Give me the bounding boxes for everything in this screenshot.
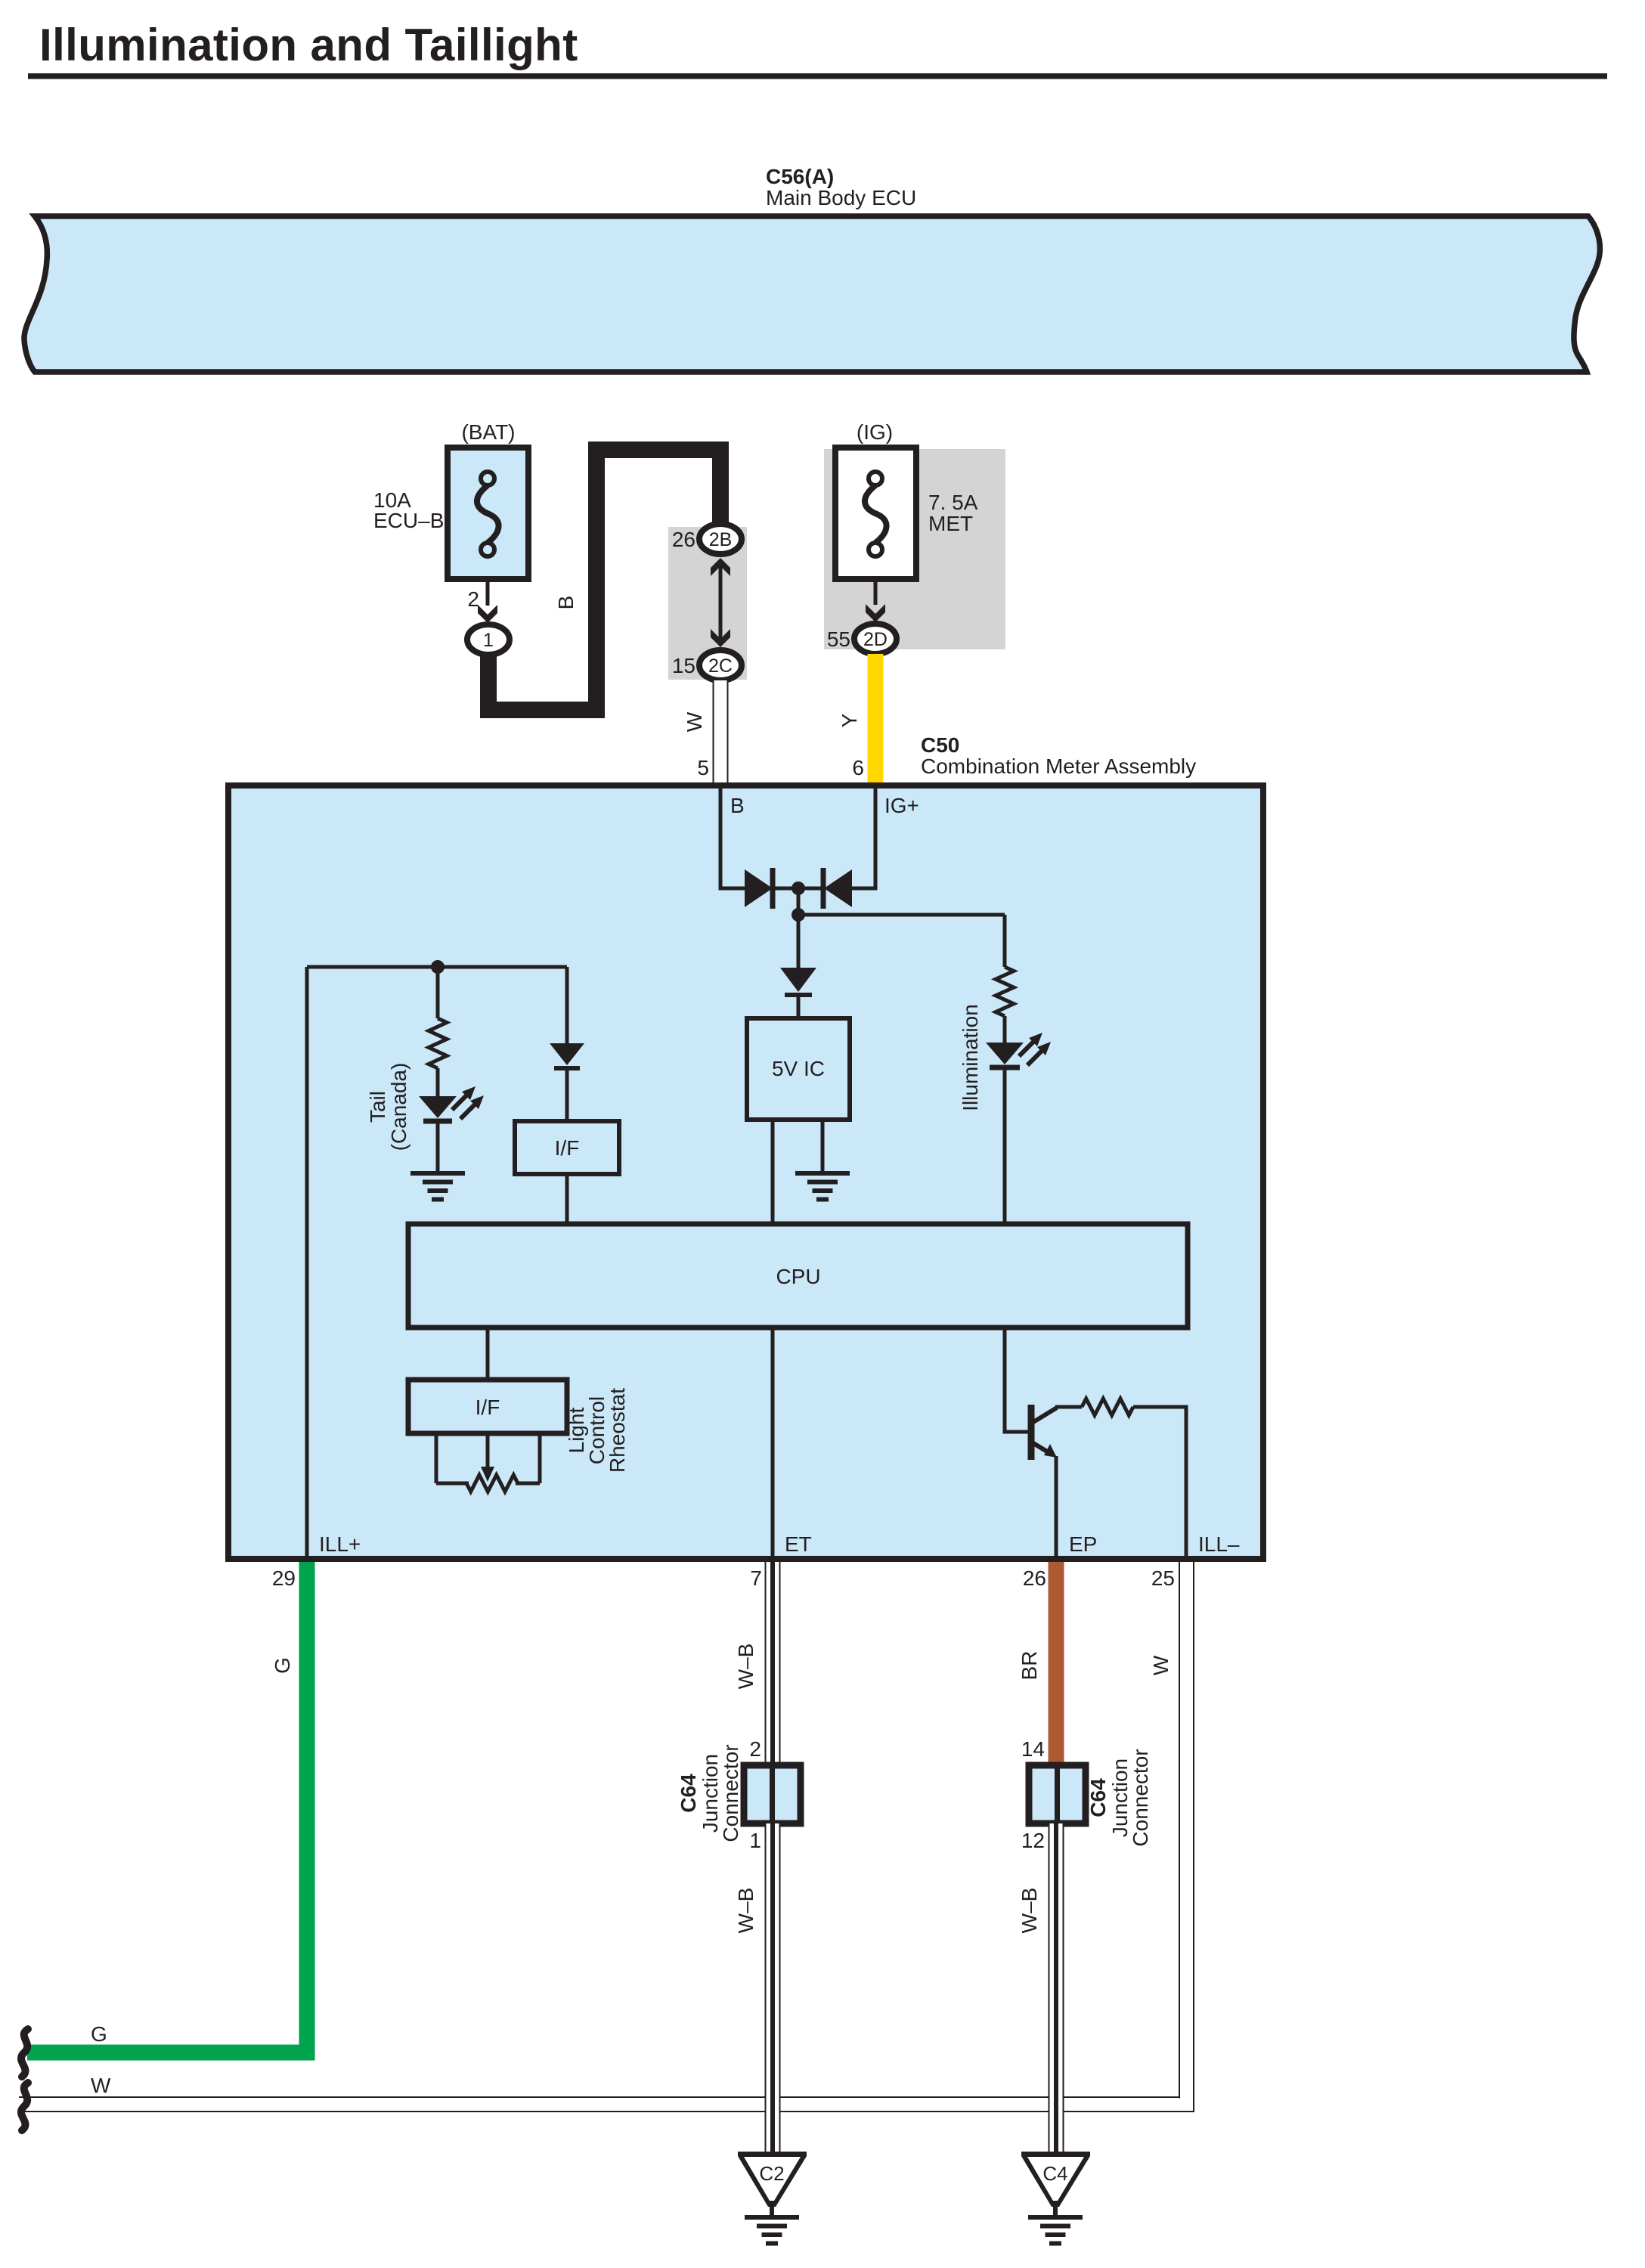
svg-text:1: 1 (749, 1829, 761, 1852)
5V IC box (747, 1018, 850, 1120)
svg-text:C2: C2 (759, 2162, 784, 2185)
svg-text:15: 15 (672, 654, 695, 677)
diode D1 (from B) (745, 869, 773, 907)
wire illumination branch down (1003, 915, 1007, 967)
lead I/F to CPU (565, 1174, 569, 1225)
wire G green ILL+ (27, 1562, 307, 2053)
wire node to lower node (797, 888, 801, 918)
svg-text:W–B: W–B (734, 1888, 757, 1934)
svg-text:MET: MET (928, 512, 973, 535)
transistor Q1 (1028, 1405, 1035, 1460)
svg-text:I/F: I/F (555, 1136, 580, 1160)
svg-text:G: G (91, 2022, 107, 2046)
svg-text:2C: 2C (708, 655, 733, 677)
svg-text:(BAT): (BAT) (461, 420, 515, 444)
wire D1 to node (773, 887, 823, 891)
wire W-B to C4 (1049, 1823, 1064, 2154)
lead 5V IC to CPU (771, 1120, 775, 1225)
svg-text:Combination Meter Assembly: Combination Meter Assembly (921, 754, 1196, 778)
svg-text:29: 29 (272, 1566, 296, 1590)
svg-text:B: B (554, 596, 578, 610)
svg-text:EP: EP (1069, 1532, 1097, 1556)
svg-text:Connector: Connector (1129, 1749, 1152, 1846)
wire B internal (720, 789, 745, 888)
svg-text:Rheostat: Rheostat (606, 1388, 629, 1473)
svg-text:W–B: W–B (1018, 1888, 1041, 1934)
svg-text:2: 2 (467, 587, 479, 611)
fuse 7.5A MET (835, 448, 916, 579)
wire to illumination branch (798, 913, 1005, 917)
gray block behind MET fuse (824, 449, 1005, 649)
LED illumination (986, 1043, 1024, 1064)
wire resistor to ILL- line (1133, 1407, 1186, 1559)
svg-text:ILL+: ILL+ (319, 1532, 361, 1556)
wire LED to ground (436, 1121, 440, 1173)
svg-text:(Canada): (Canada) (387, 1063, 410, 1151)
svg-text:7. 5A: 7. 5A (928, 491, 978, 514)
svg-text:7: 7 (750, 1566, 762, 1590)
svg-text:25: 25 (1151, 1566, 1175, 1590)
fuse 10A ECU-B (448, 448, 528, 579)
lead 5V IC to ground (821, 1120, 825, 1173)
svg-text:(IG): (IG) (857, 420, 893, 444)
rheostat arrow (486, 1433, 490, 1468)
svg-text:CPU: CPU (776, 1265, 820, 1288)
wire IG+ internal (852, 789, 875, 888)
resistor (tail) (429, 1018, 447, 1068)
ground (5V IC) (795, 1171, 850, 1176)
connector 2C (699, 650, 742, 680)
svg-text:26: 26 (672, 528, 695, 551)
rheostat legs (435, 1433, 438, 1483)
connector 2B (699, 524, 742, 554)
wire LED to CPU (1003, 1067, 1007, 1225)
wire to diode D4 (565, 967, 569, 1043)
svg-text:C50: C50 (921, 733, 959, 757)
svg-text:Connector: Connector (719, 1744, 742, 1842)
CPU box (408, 1224, 1188, 1328)
svg-text:2: 2 (749, 1737, 761, 1761)
gray connector block 2B/2C (668, 527, 747, 680)
svg-text:Tail: Tail (366, 1091, 389, 1123)
svg-text:Illumination and Taillight: Illumination and Taillight (39, 20, 578, 70)
svg-text:I/F: I/F (476, 1396, 500, 1419)
svg-text:5V IC: 5V IC (772, 1057, 825, 1080)
wire W-B from ET pin 7 (765, 1562, 781, 1765)
break mark (W wire) (21, 2083, 28, 2130)
ground (tail) (410, 1171, 465, 1176)
wire W vertical pin 25 (1179, 1562, 1194, 2105)
wire resistor to LED (1003, 1016, 1007, 1043)
svg-text:W: W (1149, 1655, 1173, 1675)
svg-text:ECU–B: ECU–B (373, 509, 444, 532)
diode D4 (550, 1043, 584, 1065)
svg-text:G: G (271, 1657, 294, 1674)
svg-text:C64: C64 (1086, 1778, 1110, 1817)
wire ET internal (771, 1328, 775, 1559)
wire ILL+ horizontal (307, 965, 567, 969)
svg-text:6: 6 (852, 756, 864, 779)
node junction dot 1 (792, 881, 805, 895)
wire W horizontal from pin 25 (drawn first) (19, 2096, 1194, 2112)
I/F box upper (515, 1121, 619, 1174)
svg-text:12: 12 (1021, 1829, 1045, 1852)
resistor (illumination) (996, 967, 1014, 1016)
LED tail (Canada) (419, 1096, 457, 1118)
wire Y yellow from 2D to pin 6 (868, 654, 884, 789)
connector 2D (854, 624, 897, 654)
svg-text:1: 1 (483, 630, 494, 651)
wire ILL+ internal vertical (305, 967, 309, 1559)
wire down to diode D3 (797, 915, 801, 968)
ground C4 (1021, 2152, 1090, 2207)
lead CPU to I/F lower (486, 1328, 490, 1380)
svg-text:5: 5 (697, 756, 709, 779)
wire emitter to EP (1055, 1456, 1058, 1559)
ground C2 (738, 2152, 807, 2207)
Combination Meter Assembly box C50 (228, 785, 1263, 1559)
wire BR brown from EP pin 26 (1049, 1562, 1064, 1765)
wire W-B to C2 (765, 1823, 781, 2154)
svg-text:W: W (683, 711, 706, 732)
resistor (EP branch) (1082, 1399, 1133, 1415)
junction connector C64 (right) (1029, 1765, 1086, 1823)
ECU C56(A) Main Body ECU band (24, 216, 1600, 372)
svg-text:2D: 2D (863, 629, 888, 650)
node junction dot 2 (792, 908, 805, 922)
svg-text:W: W (91, 2074, 111, 2097)
svg-text:ILL–: ILL– (1198, 1532, 1240, 1556)
svg-text:ET: ET (785, 1532, 812, 1556)
wire B thick black (488, 450, 720, 710)
svg-text:C56(A): C56(A) (766, 165, 834, 188)
node dot tail branch (431, 960, 445, 974)
svg-text:IG+: IG+ (884, 794, 919, 817)
I/F box lower (408, 1380, 567, 1433)
wire collector to resistor (1055, 1405, 1082, 1409)
svg-text:14: 14 (1021, 1737, 1045, 1761)
svg-text:W–B: W–B (734, 1644, 757, 1690)
transistor Q1 base wire (1005, 1328, 1028, 1432)
rheostat zigzag (466, 1475, 518, 1492)
wire fuse to node 1 with pin 2 arrow (486, 579, 490, 606)
svg-text:Main Body ECU: Main Body ECU (766, 186, 916, 209)
wire W white from 2C to pin 5 (713, 680, 729, 787)
svg-text:Y: Y (838, 713, 861, 727)
break mark (G wire) (21, 2029, 28, 2077)
svg-text:C4: C4 (1042, 2162, 1067, 2185)
svg-text:C64: C64 (677, 1774, 700, 1813)
svg-text:Illumination: Illumination (959, 1004, 982, 1111)
svg-text:B: B (730, 794, 745, 817)
diode D3 (to 5V IC) (780, 968, 816, 992)
double arrow between 2B and 2C (719, 563, 723, 644)
diode D2 (from IG+) (821, 868, 826, 909)
node 1 (467, 624, 510, 655)
svg-text:2B: 2B (709, 529, 733, 550)
svg-text:26: 26 (1023, 1566, 1046, 1590)
junction connector C64 (left) (744, 1765, 801, 1823)
wire tail branch (436, 967, 440, 1018)
wire fuse to 2D with arrow (874, 579, 878, 605)
svg-text:BR: BR (1018, 1651, 1041, 1681)
svg-text:55: 55 (827, 627, 850, 651)
